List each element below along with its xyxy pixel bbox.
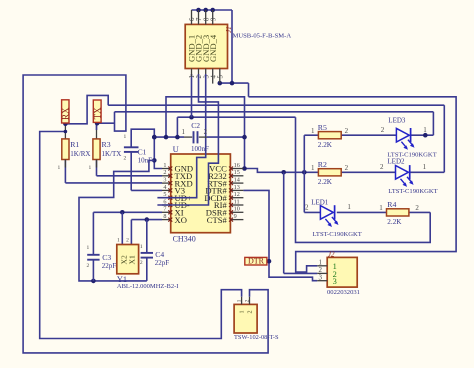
capacitor C1 pin numbers — [123, 134, 126, 161]
wire C1 top to GND column — [131, 129, 162, 168]
svg-text:8: 8 — [203, 17, 210, 21]
junction dots on C2 wire — [152, 135, 247, 140]
resistor R1 1K/RX — [62, 139, 91, 160]
svg-text:7: 7 — [196, 17, 203, 21]
svg-text:C4: C4 — [155, 250, 164, 259]
svg-text:GND_4: GND_4 — [208, 34, 218, 62]
wire USB GND top bus — [192, 10, 233, 83]
capacitor C2 pin numbers — [182, 128, 208, 136]
connector J2 part number — [327, 289, 360, 296]
svg-text:1: 1 — [57, 165, 60, 171]
svg-text:1: 1 — [163, 162, 166, 169]
svg-text:1: 1 — [423, 126, 427, 134]
svg-text:MUSB-05-F-B-SM-A: MUSB-05-F-B-SM-A — [233, 33, 292, 40]
capacitor C4 22pF — [141, 250, 170, 267]
wire crystal X2 pin drop — [121, 212, 123, 244]
svg-text:CTS#: CTS# — [207, 215, 228, 225]
header TSW pin numbers — [237, 299, 251, 302]
svg-text:15: 15 — [234, 169, 240, 176]
wire LED1 cathode to R4 — [337, 211, 387, 213]
svg-text:1K/TX: 1K/TX — [102, 150, 122, 158]
svg-text:DTR: DTR — [248, 257, 265, 266]
svg-text:9: 9 — [234, 213, 237, 220]
wire C3 bottom — [92, 261, 94, 281]
svg-text:100nF: 100nF — [191, 145, 209, 153]
wire USB shield to GND rail — [220, 83, 249, 97]
svg-text:LED1: LED1 — [311, 199, 329, 207]
svg-text:1: 1 — [239, 310, 246, 313]
wire C2 left segment — [154, 136, 184, 138]
svg-text:10nF: 10nF — [138, 157, 153, 165]
svg-text:1: 1 — [123, 134, 126, 140]
svg-text:1: 1 — [423, 163, 427, 171]
svg-text:1: 1 — [117, 238, 120, 244]
svg-text:8: 8 — [163, 213, 166, 220]
junction dot DTR label node — [267, 259, 272, 264]
svg-text:2: 2 — [305, 204, 309, 212]
junction dot VCC pin16 — [242, 166, 247, 171]
svg-text:1: 1 — [311, 127, 315, 135]
junction dot USB pin5 shield — [218, 81, 223, 86]
svg-text:2: 2 — [123, 155, 126, 161]
wire DTR from chip pin13 to connector J2 pin 3 — [243, 190, 317, 280]
svg-text:2: 2 — [126, 238, 129, 244]
wire VCC branch R5 and LED1 anode — [304, 135, 320, 212]
svg-text:R1: R1 — [70, 140, 79, 149]
svg-text:2.2K: 2.2K — [318, 178, 333, 186]
svg-text:1: 1 — [89, 165, 92, 171]
junction dot VBUS at USB pin1 — [189, 115, 194, 120]
svg-text:1: 1 — [182, 128, 186, 136]
svg-text:10: 10 — [234, 206, 240, 213]
svg-text:2: 2 — [204, 128, 208, 136]
wire C1 bottom to V3 — [131, 152, 162, 190]
svg-text:LTST-C190KGKT: LTST-C190KGKT — [313, 231, 362, 238]
svg-text:2: 2 — [345, 164, 349, 172]
resistor R1 bottom pin stub — [57, 160, 65, 171]
connector J1 part number label — [233, 33, 292, 40]
IC U CH340 part label — [173, 235, 196, 244]
svg-text:11: 11 — [234, 198, 240, 205]
wire VBUS 5V rail — [177, 117, 295, 137]
svg-text:7: 7 — [163, 206, 166, 213]
resistor R5 2.2K — [318, 123, 341, 149]
net label TX — [93, 100, 103, 122]
svg-text:1: 1 — [140, 244, 143, 250]
svg-text:C1: C1 — [138, 147, 147, 156]
resistor R3 1K/TX — [93, 139, 121, 160]
connector J2 pin numbers — [319, 258, 323, 281]
LED3 LTST-C190KGKT — [387, 117, 436, 159]
svg-text:R3: R3 — [102, 140, 111, 149]
svg-text:J2: J2 — [328, 251, 335, 259]
capacitor C1 10nF — [124, 147, 152, 164]
header TSW part label — [234, 334, 279, 341]
wire R2 to LED2 anode — [341, 171, 395, 173]
IC U left pin numbers 1-8 — [163, 162, 166, 220]
svg-text:1: 1 — [189, 75, 196, 78]
svg-text:4: 4 — [210, 75, 217, 79]
svg-text:16: 16 — [234, 162, 240, 169]
junction dot C4 branch — [145, 217, 150, 222]
svg-text:2: 2 — [345, 127, 349, 135]
junction dot crystal X2 — [120, 210, 125, 215]
crystal Y1 ABL-12.000MHZ-B2-I — [117, 245, 139, 274]
svg-text:RX: RX — [61, 107, 71, 120]
svg-text:2.2K: 2.2K — [387, 218, 402, 226]
svg-text:6: 6 — [189, 17, 196, 21]
resistor R5 pin numbers — [311, 127, 349, 135]
IC U pin edge marks — [168, 167, 233, 222]
svg-text:0022032031: 0022032031 — [327, 289, 360, 296]
IC U CH340 body — [171, 154, 231, 233]
svg-text:R5: R5 — [318, 123, 327, 132]
IC U left pin stubs — [162, 169, 171, 220]
header TSW pin stubs — [242, 297, 250, 305]
svg-text:4: 4 — [163, 184, 166, 191]
svg-text:2: 2 — [381, 126, 385, 134]
svg-text:LED2: LED2 — [387, 157, 405, 165]
crystal Y1 labels — [117, 275, 179, 290]
svg-text:1: 1 — [347, 203, 351, 211]
IC U designator — [173, 144, 179, 154]
wire R1 top from RX node — [64, 124, 66, 140]
IC U right pin names — [204, 164, 227, 225]
svg-text:2: 2 — [415, 204, 419, 212]
wire RX loop to header TSW pin 1 — [40, 132, 242, 339]
svg-text:14: 14 — [234, 177, 240, 184]
resistor R2 pin numbers — [311, 164, 349, 172]
svg-text:1: 1 — [237, 299, 243, 302]
svg-text:LED3: LED3 — [388, 117, 406, 125]
svg-text:1: 1 — [379, 204, 383, 212]
wire XO row to crystal X1 — [131, 220, 162, 245]
LED2 pin numbers — [380, 163, 427, 171]
junction dot C3 ground — [91, 279, 96, 284]
svg-text:2: 2 — [246, 310, 253, 313]
header TSW inner pin names — [239, 310, 254, 313]
capacitor C2 100nF — [184, 121, 209, 153]
wire VBUS from USB pin1 — [191, 74, 193, 117]
svg-text:3: 3 — [163, 177, 166, 184]
capacitor C4 pin numbers — [140, 244, 143, 266]
connector J2 0022032031 body — [327, 257, 357, 287]
wire C2 right segment — [207, 136, 245, 138]
wire 5V down to R4 return — [296, 117, 431, 242]
resistor R2 2.2K — [318, 160, 341, 186]
wire R4 pin2 — [409, 211, 430, 213]
svg-text:LTST-C190KGKT: LTST-C190KGKT — [388, 188, 437, 195]
svg-text:XO: XO — [175, 215, 187, 225]
connector J1 bottom pin numbers — [189, 75, 224, 79]
svg-text:12: 12 — [234, 191, 240, 198]
svg-text:5: 5 — [217, 75, 224, 79]
junction dot shield bus corner — [230, 81, 235, 86]
crystal Y1 pin numbers — [117, 238, 129, 244]
svg-text:CH340: CH340 — [173, 235, 196, 244]
connector J1 pin names GND_1 to GND_4 — [187, 34, 218, 62]
wire VCC branch to connector J2 pin 2 — [284, 172, 318, 273]
header TSW-102-08-T-S body — [234, 304, 257, 333]
junction dots on VCC row — [281, 170, 306, 175]
svg-text:3: 3 — [333, 277, 337, 286]
svg-text:R2: R2 — [318, 160, 327, 169]
wire C4 column — [146, 220, 148, 281]
IC U right pin numbers 16-9 — [234, 162, 240, 220]
capacitor C3 22pF — [87, 253, 116, 270]
net label DTR — [245, 257, 267, 266]
wire USB D- to UD- — [157, 74, 218, 205]
wire GND elbow to crystal ground run — [79, 160, 154, 281]
svg-text:ABL-12.000MHZ-B2-I: ABL-12.000MHZ-B2-I — [117, 283, 179, 290]
connector J1 top pin stubs 6 7 8 9 — [192, 10, 213, 24]
svg-text:1K/RX: 1K/RX — [70, 150, 90, 158]
svg-text:2.2K: 2.2K — [318, 141, 333, 149]
svg-text:X1: X1 — [128, 255, 137, 264]
svg-text:TSW-102-08-T-S: TSW-102-08-T-S — [234, 334, 279, 341]
svg-text:3: 3 — [203, 75, 210, 79]
junction dot LED3 cathode — [423, 133, 428, 138]
svg-text:TX: TX — [93, 107, 103, 119]
svg-text:2: 2 — [163, 169, 166, 176]
wire XI row to C3 — [93, 212, 162, 254]
wire RX jog from RX node to RX rail — [65, 95, 108, 123]
svg-text:C3: C3 — [102, 253, 111, 262]
connector J1 MUSB-05-F-B-SM-A body — [185, 24, 227, 68]
wire TX rail to LED3 cathode — [115, 112, 434, 135]
IC U right pin stubs — [230, 169, 243, 220]
svg-text:2: 2 — [380, 163, 384, 171]
junction dots on USB top bus — [196, 8, 215, 13]
connector J1 bottom pin stubs 1-5 — [192, 69, 220, 84]
connector J1 designator — [225, 26, 233, 33]
svg-text:C2: C2 — [191, 121, 200, 130]
LED1 pin numbers — [305, 203, 351, 212]
resistor R4 pin numbers — [379, 204, 419, 212]
resistor R3 bottom pin stub — [89, 160, 97, 171]
junction dot TX node — [95, 121, 100, 126]
junction dot R1 top — [64, 130, 68, 134]
wire GND rail across top and right side down to connector J2 pin 1 — [249, 97, 457, 272]
wire VCC pin16 to R2 — [243, 169, 318, 173]
IC U left pin names — [175, 164, 194, 225]
connector J2 inner pin names — [333, 262, 337, 286]
svg-text:2: 2 — [86, 263, 89, 269]
wire VCC bridge over C2 — [166, 97, 245, 169]
svg-text:2: 2 — [140, 260, 143, 266]
LED1 LTST-C190KGKT — [311, 199, 362, 238]
connector J2 pin stubs — [317, 266, 327, 281]
svg-text:U: U — [173, 144, 179, 154]
svg-text:22pF: 22pF — [102, 262, 117, 270]
wire R1 bottom to RXD — [65, 160, 162, 183]
junction dots GND column — [152, 135, 157, 163]
svg-text:22pF: 22pF — [155, 259, 170, 267]
resistor R4 2.2K — [387, 200, 409, 226]
svg-text:R4: R4 — [387, 200, 396, 209]
junction dot RX node — [63, 122, 68, 127]
net label RX — [61, 100, 71, 123]
LED3 pin numbers — [381, 126, 427, 134]
svg-text:3: 3 — [319, 273, 323, 281]
connector J1 top pin numbers — [189, 17, 217, 21]
wire TX label to TX structure — [97, 122, 114, 124]
svg-text:13: 13 — [234, 184, 240, 191]
wire TX loop structure — [23, 75, 268, 353]
wire R3 top from TX node — [96, 123, 98, 140]
wire RX rail to LED2 cathode — [108, 105, 444, 172]
capacitor C3 pin numbers — [86, 245, 89, 269]
svg-text:1: 1 — [86, 245, 89, 251]
wire R3 bottom to TXD — [97, 160, 163, 176]
svg-text:9: 9 — [210, 17, 217, 21]
svg-text:2: 2 — [245, 299, 251, 302]
wire USB D+ to UD+ — [157, 74, 205, 198]
svg-text:1: 1 — [311, 164, 315, 172]
wire R5 to LED3 anode — [341, 134, 396, 136]
svg-text:2: 2 — [196, 75, 203, 79]
LED2 LTST-C190KGKT — [387, 157, 437, 195]
connector J2 designator — [328, 251, 335, 259]
